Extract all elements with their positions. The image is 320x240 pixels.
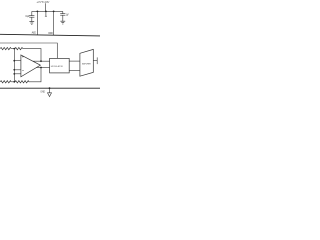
ground below C1 (29, 22, 34, 25)
resistor R2 (15, 47, 23, 49)
svg-text:0.1µF: 0.1µF (25, 16, 30, 18)
wire op-amp output to modulator (33, 60, 50, 62)
wire modulator out lower (69, 70, 80, 72)
wire to node B (11, 81, 15, 83)
op-amp plus mark (22, 56, 24, 58)
op-amp minus mark (22, 69, 24, 71)
wire lower tap to op-amp (14, 73, 21, 75)
bus node dot (lower tap) (13, 73, 15, 75)
wire to op-amp inverting input (14, 60, 21, 62)
resistor R1 (0, 47, 11, 49)
wire modulator out upper (69, 60, 80, 62)
node B dot (13, 81, 15, 83)
modulator block (50, 58, 70, 73)
resistor R4 (15, 81, 29, 83)
node dot on rail (DVDD drop) (53, 11, 55, 13)
output pin bar (96, 57, 98, 64)
wire internal supply run (0, 43, 57, 58)
bottom ground wire (0, 87, 100, 89)
wire leader from label to rail (45, 3, 47, 11)
svg-text:MODULATOR: MODULATOR (51, 65, 64, 68)
svg-text:DVDD: DVDD (48, 33, 53, 35)
capacitor C2 (60, 11, 65, 21)
filter block (80, 49, 93, 76)
wire feedback bottom (29, 68, 41, 82)
svg-text:AMPLIFIER: AMPLIFIER (82, 63, 91, 66)
node dot on rail (center stub) (45, 11, 47, 13)
svg-text:GND: GND (40, 91, 45, 94)
bus node dot (non-inverting tap) (13, 69, 15, 71)
wire to node A (11, 48, 15, 50)
svg-text:AVDD: AVDD (32, 32, 37, 35)
ground symbol (48, 93, 52, 97)
node dot on rail (AVDD drop) (37, 11, 39, 13)
ground below C2 (60, 21, 65, 24)
wire AVDD pin drop (36, 11, 38, 35)
svg-text:+2.7V TO +5.5V: +2.7V TO +5.5V (36, 1, 49, 4)
wire data output (93, 60, 97, 62)
wire feedback top (23, 49, 41, 62)
input bus vertical (13, 49, 15, 82)
wire DVDD pin drop (53, 11, 55, 35)
op-amp U1 (21, 55, 41, 77)
capacitor C1 (29, 11, 34, 21)
wire lower output to modulator (36, 67, 49, 69)
wire ground stub (49, 88, 51, 93)
node A dot (13, 48, 15, 50)
node dot ground tap (49, 87, 51, 89)
node dot lower feedback (40, 67, 42, 69)
resistor R3 (0, 81, 11, 83)
bus node dot (inverting tap) (13, 60, 15, 62)
chip top edge (0, 34, 100, 36)
wire center stub (45, 11, 47, 16)
wire VDD rail (32, 10, 63, 12)
feedback node dot on output (40, 60, 42, 62)
wire to op-amp non-inverting input (14, 69, 21, 71)
